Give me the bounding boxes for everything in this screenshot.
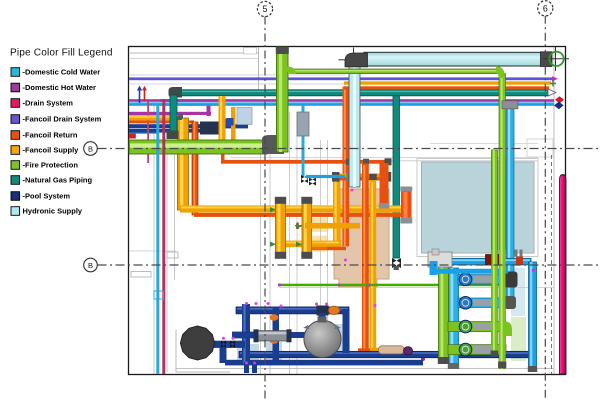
purple dots on fire line xyxy=(278,283,281,286)
gridline B lower horizontal xyxy=(98,264,600,266)
natural gas vertical drop right xyxy=(393,93,400,258)
red fitting at frame edge xyxy=(129,134,136,139)
cyan fixture outline xyxy=(154,291,164,299)
fire main elbow xyxy=(262,135,284,154)
flow arrow blue xyxy=(139,89,141,103)
hot water branch horizontal xyxy=(129,112,211,115)
pool manifold top blue pipe xyxy=(430,258,531,265)
wall channel pair xyxy=(166,150,168,372)
fire vertical right B xyxy=(492,150,498,356)
pool return long bottom pipe xyxy=(239,351,533,358)
fire vertical top cap xyxy=(276,47,289,54)
gas main end arrow xyxy=(548,89,556,96)
drain thin vertical xyxy=(147,101,149,163)
green arrow markers kettle xyxy=(270,207,276,212)
legend swatch: Hydronic Supply xyxy=(11,207,83,216)
dark elbow row2 right xyxy=(504,296,516,309)
pale green panel right manifold xyxy=(511,317,526,361)
fancoil supply riser left xyxy=(178,118,189,210)
pool mid horizontal to pump xyxy=(232,332,262,339)
cold water vertical right xyxy=(507,106,515,306)
tank outlet pipe xyxy=(213,341,245,348)
drawing frame xyxy=(129,47,566,375)
svg-text:-Fire Protection: -Fire Protection xyxy=(23,161,79,170)
valve stems magenta xyxy=(222,189,377,340)
small blue valve top xyxy=(227,118,234,126)
right manifold: green vertical thick xyxy=(439,258,449,362)
ceiling grid line xyxy=(130,52,258,54)
pool pipe upper horizontal xyxy=(236,307,349,314)
fancoil return top line xyxy=(344,86,549,89)
fire vertical right A xyxy=(499,74,506,369)
circulation pump xyxy=(257,331,289,341)
legend swatch: Natural Gas Piping xyxy=(11,176,93,185)
small green cross marker xyxy=(550,81,556,87)
supply loop return arm xyxy=(277,241,341,248)
supply elbow corners dark xyxy=(177,114,183,120)
svg-text:-Pool System: -Pool System xyxy=(23,192,71,201)
manifold row 4 (green) xyxy=(448,345,506,355)
svg-text:Hydronic Supply: Hydronic Supply xyxy=(23,207,83,216)
equipment layer xyxy=(180,317,341,361)
tan expansion tank xyxy=(379,346,405,354)
pool surround outline xyxy=(417,159,538,257)
drain stack magenta riser xyxy=(560,175,567,375)
purple valve on tank xyxy=(404,347,413,355)
pool vertical left xyxy=(242,304,250,364)
pool vertical at pump left xyxy=(273,308,280,362)
fancoil supply run 2 xyxy=(180,205,407,212)
fancoil supply feed from frame xyxy=(129,115,182,120)
legend swatch: Fancoil Supply xyxy=(11,146,79,155)
white pump fitting xyxy=(428,252,452,267)
hydronic riser symbol (circle cross) xyxy=(543,58,569,60)
gridline 5 bubble xyxy=(257,1,272,16)
natural gas main (teal) xyxy=(176,90,548,96)
fire thin line lower xyxy=(280,284,503,287)
fire elbow top right xyxy=(496,66,505,78)
gas valve glyph xyxy=(392,258,401,268)
drain riser (cyan thin) xyxy=(156,104,159,374)
fire protection branch top xyxy=(288,69,500,74)
valve bowties on tank pipe xyxy=(221,341,226,348)
LEGEND xyxy=(10,48,113,216)
svg-text:-Drain System: -Drain System xyxy=(23,99,74,108)
maroon pipe segment xyxy=(486,255,501,266)
gridline B upper horizontal xyxy=(98,148,600,150)
legend swatch: Drain System xyxy=(11,99,73,108)
flow arrow red xyxy=(144,89,146,101)
svg-text:-Natural Gas Piping: -Natural Gas Piping xyxy=(23,176,93,185)
fancoil return run 2 xyxy=(194,213,409,217)
fancoil supply bottom elbow xyxy=(358,348,370,354)
gas elbow xyxy=(169,87,183,98)
domestic cold water main (blue) xyxy=(129,102,554,106)
pool basin fill xyxy=(422,162,535,253)
wall channel pair xyxy=(320,140,322,340)
dark elbow row1 right xyxy=(505,272,518,288)
fancoil return riser left xyxy=(192,122,198,215)
wall corner bottom-left xyxy=(176,330,230,372)
gray duct behind xyxy=(297,112,309,136)
legend swatch: Domestic Hot Water xyxy=(11,83,96,92)
gridline 5 vertical xyxy=(264,17,266,400)
cold water riser mid xyxy=(302,106,305,177)
red tick valve xyxy=(297,223,299,230)
wall line right xyxy=(553,47,555,374)
gridline 6 bubble xyxy=(538,1,553,16)
pipes layer xyxy=(129,47,569,374)
manifold row 1 (cyan) xyxy=(458,275,506,285)
right manifold: cyan vertical xyxy=(449,268,459,367)
fancoil supply top line xyxy=(344,81,551,84)
pale blue panel right manifold xyxy=(511,268,525,316)
blue elbow left down xyxy=(430,261,438,275)
svg-text:Pipe Color Fill Legend: Pipe Color Fill Legend xyxy=(10,48,113,59)
wall line bottom inner xyxy=(176,368,554,370)
amber risers small top xyxy=(219,96,226,140)
manifold row 3 (green) xyxy=(448,322,506,332)
gray clamp xyxy=(502,101,518,109)
wall line small xyxy=(128,250,176,252)
fancoil return horizontal mid 1 xyxy=(221,160,391,164)
wall line vertical xyxy=(258,47,260,90)
ceiling grid line xyxy=(130,58,258,60)
svg-text:-Fancoil Supply: -Fancoil Supply xyxy=(23,146,80,155)
pool system pipe pair top-left xyxy=(129,124,248,128)
pool second bottom pipe xyxy=(225,360,423,366)
fancoil return feed from frame xyxy=(129,120,194,123)
frame-bottom small risers xyxy=(244,362,249,373)
dark ball valve xyxy=(500,274,513,287)
drain riser (crimson thin) xyxy=(162,99,165,374)
wall lines mid band xyxy=(230,157,538,159)
pump to sphere pipe xyxy=(284,332,306,338)
gray fixture box xyxy=(167,252,178,258)
legend swatch: Pool System xyxy=(11,192,70,201)
fire protection main horizontal xyxy=(129,140,267,154)
legend swatch: Domestic Cold Water xyxy=(11,68,100,77)
orange football valve xyxy=(328,306,340,314)
kettle tan box xyxy=(334,189,389,287)
legend swatch: Fire Protection xyxy=(11,161,78,170)
blue vertical right xyxy=(529,262,537,370)
pool vertical right of manifold xyxy=(343,309,350,353)
svg-text:-Domestic Cold Water: -Domestic Cold Water xyxy=(23,68,101,77)
hot water riser elbow xyxy=(207,104,211,116)
domestic hot water main (magenta) xyxy=(129,99,554,102)
secondary dashed vertical xyxy=(551,155,553,374)
supply glow panels xyxy=(303,218,327,233)
manifold row 2 (cyan) xyxy=(458,298,506,308)
fancoil return assembly right xyxy=(401,190,412,223)
svg-text:6: 6 xyxy=(543,4,548,14)
hot water end diamond xyxy=(555,96,564,103)
hydronic supply vertical xyxy=(349,64,360,187)
fancoil return horizontal mid 2 xyxy=(333,174,391,178)
svg-text:B: B xyxy=(88,144,93,153)
svg-text:5: 5 xyxy=(263,4,268,14)
kettle mid branch xyxy=(305,223,360,229)
pool pipe fitting cluster xyxy=(200,122,225,135)
green elbow row3 right xyxy=(499,322,512,336)
gridline 6 vertical xyxy=(544,16,546,399)
hydronic dark cap xyxy=(541,52,553,67)
gas vertical drop left (over feeds) xyxy=(170,95,177,135)
cold water short run to kettle xyxy=(306,175,345,178)
fancoil supply long vertical xyxy=(370,176,376,353)
svg-text:B: B xyxy=(88,261,93,270)
fire verticals over junction xyxy=(492,250,498,351)
hydronic big elbow xyxy=(345,53,368,67)
valve wheels xyxy=(459,273,472,356)
gridline B lower bubble xyxy=(84,258,98,272)
fancoil vertical pair center xyxy=(343,87,350,247)
fancoil return long vertical xyxy=(362,164,369,353)
pale blue box behind sphere xyxy=(327,324,345,355)
cold water end diamond xyxy=(554,102,564,110)
hydronic supply main top xyxy=(364,52,543,66)
wall line vertical xyxy=(153,104,155,374)
fancoil return jog vertical xyxy=(380,163,389,208)
fancoil drain line (blue-violet) xyxy=(129,77,552,80)
magenta arrow at drain line end xyxy=(552,76,558,81)
svg-text:-Fancoil Drain System: -Fancoil Drain System xyxy=(23,115,102,124)
kettle vertical 1 xyxy=(276,201,286,255)
gridline B upper bubble xyxy=(84,142,98,156)
wall line mid xyxy=(280,287,554,289)
fire protection vertical main xyxy=(277,47,289,152)
wall channel pair xyxy=(260,140,262,374)
dark storage tank xyxy=(180,326,214,360)
legend swatch: Fancoil Drain System xyxy=(11,115,102,124)
wall channel pair xyxy=(289,112,291,374)
sphere top valve xyxy=(317,306,329,316)
hot/cold mains over teal elbow xyxy=(160,99,220,102)
pressure sphere tank xyxy=(304,320,341,357)
gray fixture box xyxy=(131,272,151,278)
legend swatch: Fancoil Return xyxy=(11,131,78,140)
kettle vertical 2 xyxy=(302,201,312,255)
svg-text:-Domestic Hot Water: -Domestic Hot Water xyxy=(23,83,97,92)
ceiling tile rect xyxy=(244,48,257,55)
svg-text:-Fancoil Return: -Fancoil Return xyxy=(23,131,78,140)
pale blue box behind pump xyxy=(237,344,259,364)
fancoil return bottom cap xyxy=(421,357,425,361)
cold water small stub bottom-left xyxy=(129,131,158,134)
ceiling grid line xyxy=(130,74,345,76)
tank elbow down xyxy=(220,343,227,363)
valve glyphs on riser xyxy=(301,175,308,183)
ceiling grid line xyxy=(130,83,345,85)
light blue fixture box xyxy=(237,108,252,125)
